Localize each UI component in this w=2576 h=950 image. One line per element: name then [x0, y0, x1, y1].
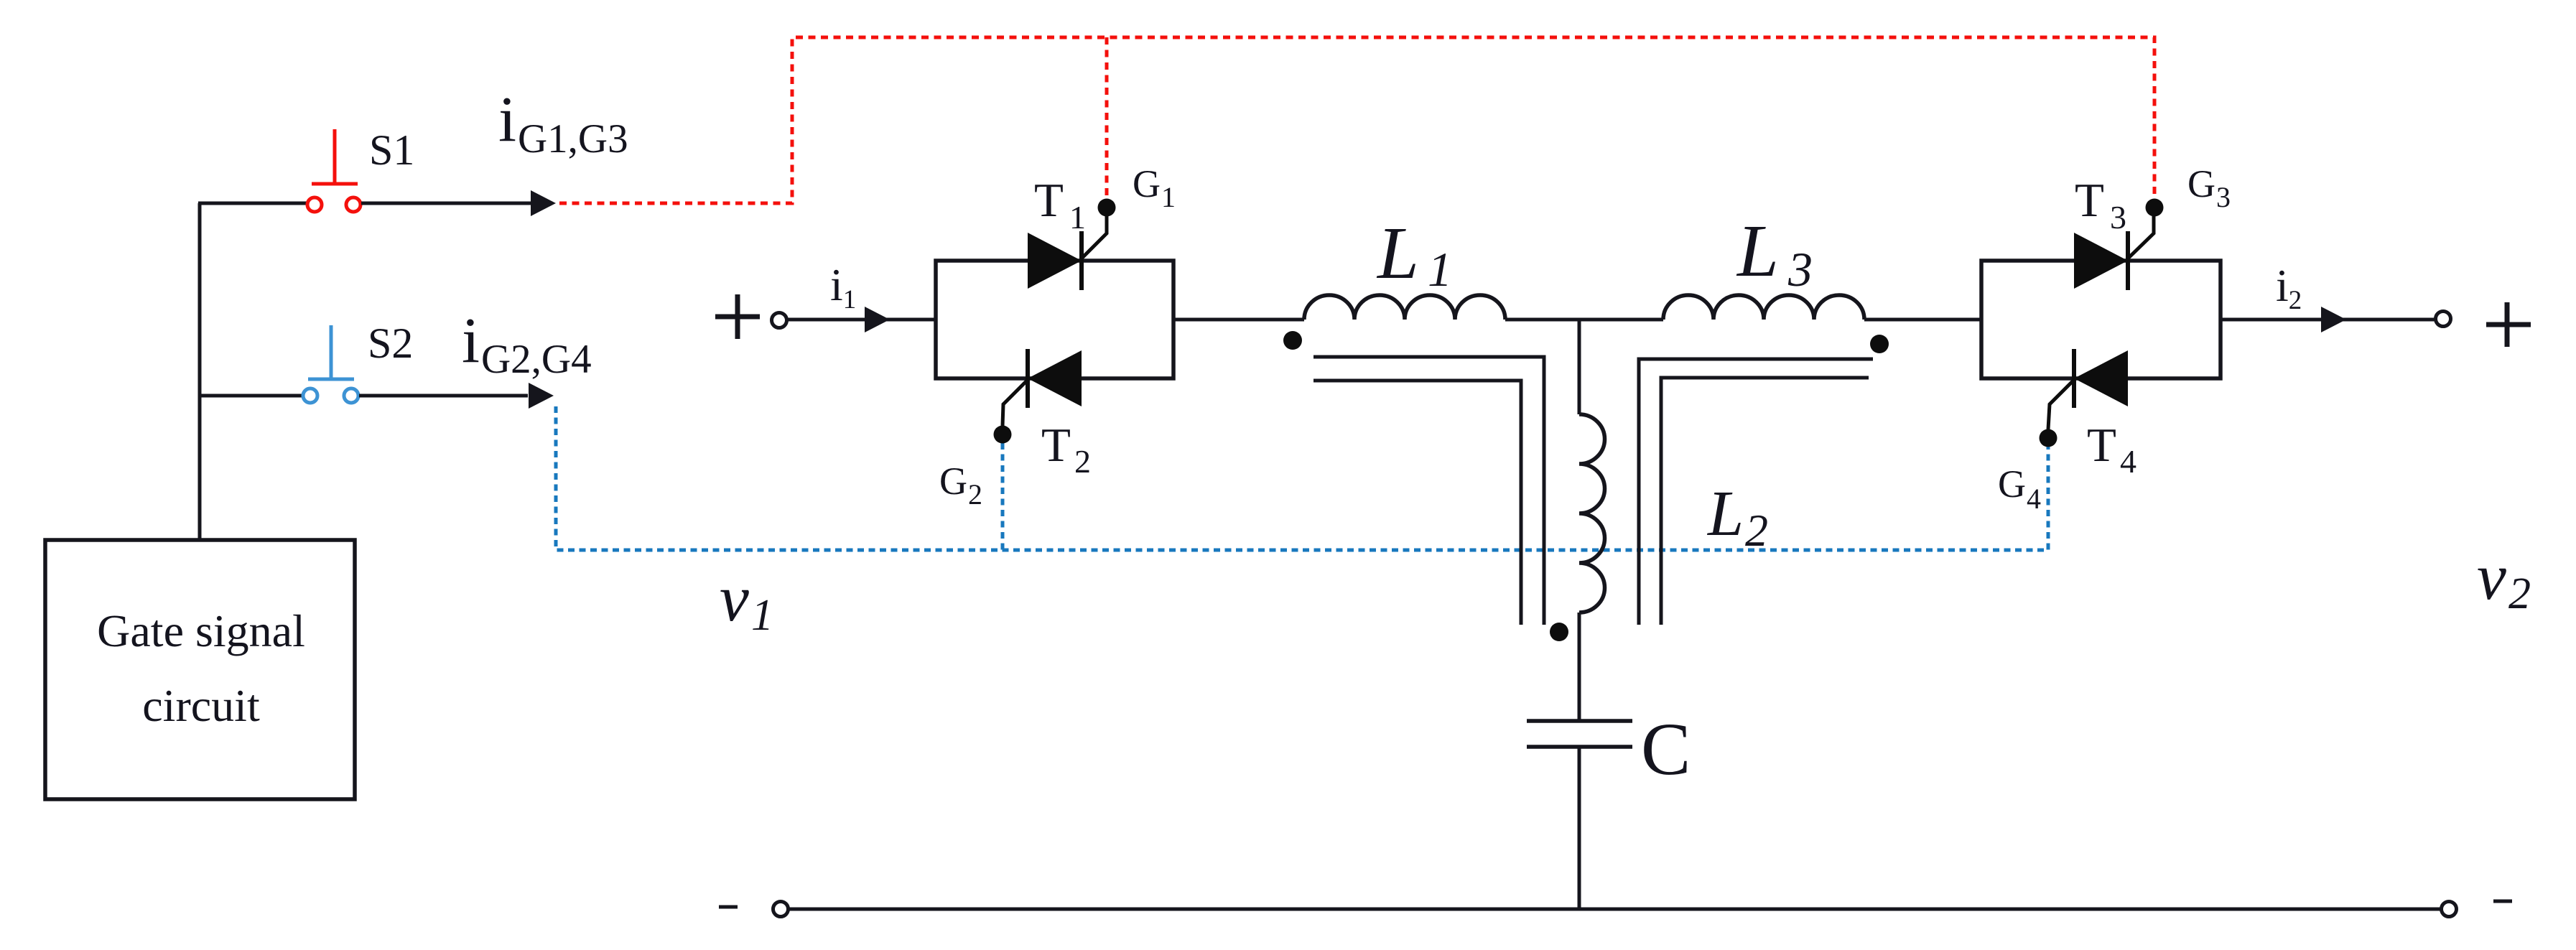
wire S2 branch: [198, 394, 302, 398]
svg-text:2: 2: [1745, 505, 1768, 556]
inductor L2: [1579, 414, 1605, 613]
thyristor T1: [1028, 216, 1107, 290]
svg-text:1: 1: [1428, 242, 1452, 297]
svg-text:S2: S2: [368, 320, 413, 367]
svg-text:L: L: [1376, 212, 1419, 294]
gate dot for G2: [994, 426, 1012, 444]
inductor L1: [1304, 295, 1505, 320]
inductor L3: [1663, 295, 1864, 320]
wire L2 to capacitor: [1578, 613, 1581, 721]
thyristor T4: [2048, 349, 2128, 429]
svg-text:1: 1: [1069, 199, 1086, 236]
arrow i1: [865, 307, 890, 332]
svg-text:T: T: [2075, 174, 2104, 227]
red dotted branch to G1: [1105, 37, 1109, 199]
wire center junction down: [1578, 320, 1581, 414]
thyristor block T1/T2 rect: [936, 261, 1173, 378]
capacitor C: [1527, 721, 1632, 747]
wire input: [787, 318, 936, 322]
thyristor T3: [2074, 216, 2154, 290]
arrow iG1,G3: [531, 190, 556, 216]
wire L1 to L3 center: [1505, 318, 1663, 322]
svg-text:3: 3: [1787, 242, 1813, 297]
terminal circle left bottom: [773, 902, 789, 917]
terminal circle right top: [2436, 312, 2451, 327]
Gate signal circuit box: [45, 540, 355, 799]
svg-text:L: L: [1736, 210, 1779, 292]
gate dot G1: [1098, 199, 1116, 217]
wire left bus vertical: [198, 203, 202, 540]
switch S1: [307, 129, 361, 212]
svg-text:circuit: circuit: [142, 680, 260, 731]
terminal circle left top: [772, 313, 787, 328]
svg-text:2: 2: [2508, 569, 2531, 618]
svg-text:G: G: [1133, 162, 1161, 205]
arrow i2: [2321, 307, 2346, 332]
wire S1 to arrow: [361, 202, 531, 205]
svg-text:4: 4: [2120, 443, 2136, 480]
svg-text:T: T: [1041, 419, 1071, 472]
svg-text:1: 1: [1161, 181, 1176, 213]
gate dot for G4: [2040, 429, 2057, 447]
wire block1 to L1: [1173, 318, 1304, 322]
core bars right lower: [1661, 378, 1869, 625]
thyristor block T3/T4 rect: [1981, 261, 2221, 378]
blue dotted gate line G2,G4: [556, 406, 2048, 550]
svg-text:1: 1: [751, 591, 773, 640]
core bars left lower: [1313, 381, 1521, 625]
core bars right upper: [1639, 359, 1873, 625]
svg-text:G: G: [2187, 162, 2215, 205]
blue dotted branch to G2: [1001, 443, 1005, 550]
wire output: [2221, 318, 2435, 322]
switch S2: [303, 325, 358, 403]
svg-text:4: 4: [2027, 483, 2041, 515]
gate dot G3: [2146, 199, 2164, 217]
svg-text:v: v: [720, 562, 749, 635]
svg-text:2: 2: [1074, 443, 1091, 480]
svg-text:G: G: [1998, 462, 2026, 506]
svg-text:S1: S1: [369, 126, 414, 174]
wire capacitor to bottom: [1578, 747, 1581, 909]
svg-text:3: 3: [2110, 199, 2126, 236]
phase dot L1: [1283, 331, 1302, 350]
phase dot L2: [1550, 623, 1568, 641]
wire S2 to arrow: [359, 394, 528, 398]
svg-text:2: 2: [968, 478, 982, 511]
thyristor T2: [1003, 349, 1082, 426]
svg-text:T: T: [1034, 174, 1064, 227]
svg-text:L: L: [1706, 478, 1744, 549]
svg-text:3: 3: [2216, 181, 2231, 213]
minus terminal left: [719, 905, 738, 909]
red dotted gate line G1,G3: [559, 37, 2154, 203]
wire S1 branch: [198, 202, 307, 205]
wire bottom: [789, 908, 2440, 911]
arrow iG2,G4: [529, 383, 554, 409]
svg-text:G: G: [939, 460, 967, 503]
svg-text:v: v: [2477, 540, 2506, 613]
minus terminal right: [2493, 900, 2512, 903]
phase dot L3: [1870, 335, 1889, 353]
plus terminal left: [715, 294, 760, 339]
wire L3 to block2: [1864, 318, 1981, 322]
svg-text:T: T: [2087, 419, 2116, 472]
terminal circle right bottom: [2442, 902, 2457, 917]
core bars left upper: [1313, 357, 1544, 625]
plus terminal right: [2486, 302, 2531, 347]
svg-text:Gate signal: Gate signal: [97, 605, 305, 656]
svg-text:C: C: [1641, 708, 1691, 791]
